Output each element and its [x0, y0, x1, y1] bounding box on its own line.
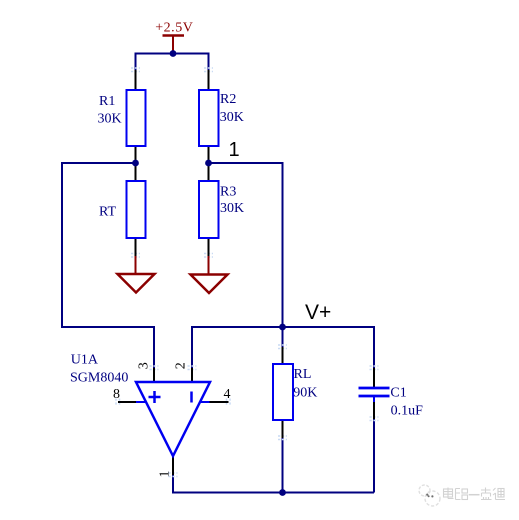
svg-text:R2: R2	[220, 92, 236, 107]
svg-text:+2.5V: +2.5V	[155, 21, 193, 36]
svg-text:8: 8	[113, 387, 120, 402]
svg-text:U1A: U1A	[71, 352, 99, 367]
svg-text:2: 2	[173, 362, 188, 369]
svg-text:R3: R3	[220, 185, 236, 200]
svg-text:R1: R1	[99, 94, 115, 109]
svg-text:1: 1	[158, 471, 173, 478]
svg-text:90K: 90K	[293, 385, 317, 400]
svg-text:3: 3	[136, 362, 151, 369]
svg-text:30K: 30K	[98, 112, 122, 127]
svg-text:30K: 30K	[220, 201, 244, 216]
svg-text:30K: 30K	[220, 110, 244, 125]
svg-text:RT: RT	[99, 205, 116, 220]
svg-text:SGM8040: SGM8040	[70, 370, 128, 385]
svg-text:RL: RL	[294, 367, 312, 382]
svg-text:1: 1	[229, 139, 240, 161]
svg-text:4: 4	[224, 387, 231, 402]
svg-text:C1: C1	[390, 386, 406, 401]
svg-text:0.1uF: 0.1uF	[391, 403, 424, 418]
svg-text:V+: V+	[305, 301, 331, 324]
